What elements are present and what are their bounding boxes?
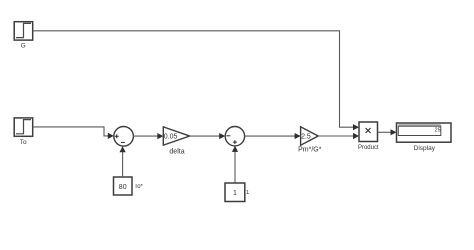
sum junction S1 [114,127,134,147]
svg-text:To: To [20,139,27,146]
svg-text:Product: Product [358,145,379,151]
svg-text:2.5: 2.5 [301,134,311,141]
svg-text:0.05: 0.05 [164,134,178,141]
constant To* (80) [114,177,133,195]
wire constant 1 to sum S2 bottom [232,146,238,183]
wire Product to Display [378,129,397,135]
wire gain delta to sum S2 [190,133,226,139]
wire S2 to gain Pm*/G* [245,133,301,139]
svg-text:1: 1 [246,190,250,196]
source block To (step) [14,118,33,136]
wire gain Pm*/G* to Product input 2 [318,133,359,139]
svg-text:delta: delta [169,148,184,155]
svg-text:Pm*/G*: Pm*/G* [298,146,322,153]
svg-text:To*: To* [134,184,143,190]
wire constant 80 to sum S1 bottom [120,146,126,177]
wire G to Product input 1 [33,31,359,131]
svg-text:Display: Display [414,145,436,152]
wire To to sum S1 [33,127,114,139]
display block [397,123,452,142]
svg-text:25: 25 [435,128,441,134]
gain delta (0.05) [163,127,189,145]
sum junction S2 [225,127,244,146]
constant 1 [225,183,245,202]
svg-text:G: G [21,43,26,50]
source block G (step) [14,22,33,40]
svg-text:80: 80 [119,184,127,191]
wire S1 to gain delta [133,133,163,139]
gain Pm*/G* (2.5) [301,127,319,145]
svg-text:1: 1 [233,190,237,197]
product block [359,122,378,142]
